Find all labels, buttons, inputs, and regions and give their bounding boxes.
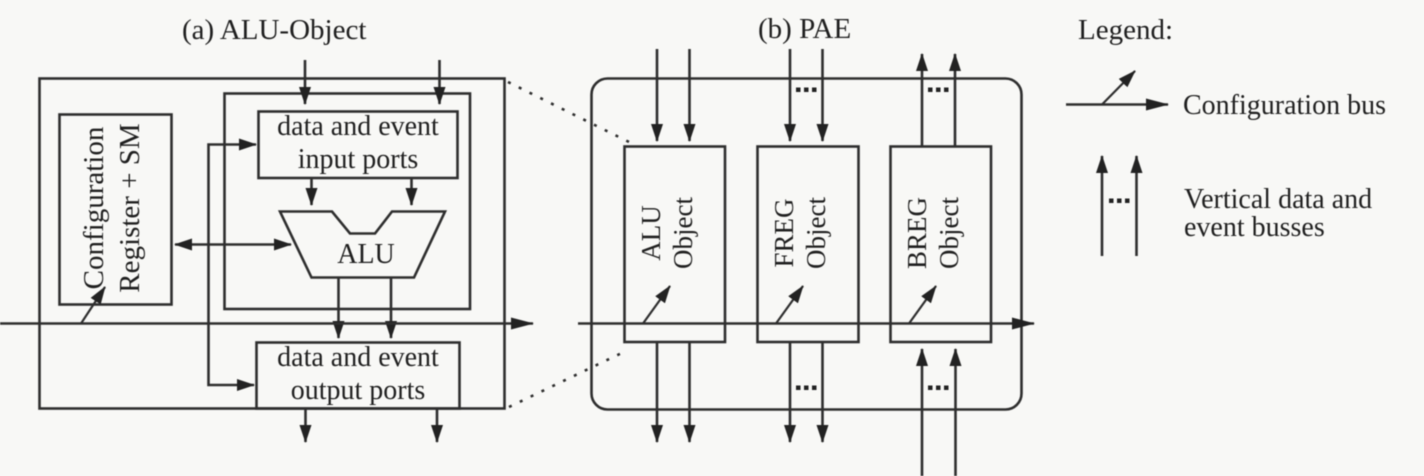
svg-text:ALU: ALU <box>636 205 666 261</box>
wire ALU Object bottom arrow left <box>656 342 659 442</box>
svg-text:event busses: event busses <box>1184 212 1325 243</box>
wire BREG top arrow left <box>921 54 924 147</box>
legend configuration tap arrow <box>1102 71 1135 105</box>
wire feedback path to input and output ports <box>209 145 257 386</box>
svg-text:data and event: data and event <box>277 342 439 373</box>
configuration bus line (a) <box>0 322 533 324</box>
wire FREG bottom arrow right <box>821 342 824 442</box>
svg-text:Object: Object <box>801 197 831 269</box>
box ALU Object <box>625 147 726 343</box>
configuration tap arrow FREG Object <box>776 286 803 324</box>
wire BREG top arrow right <box>954 54 957 147</box>
ALU trapezoid <box>280 212 445 278</box>
wire input ports to ALU right <box>410 178 413 205</box>
outer box ALU-Object <box>40 79 505 409</box>
wire bottom output arrow right <box>436 409 439 443</box>
wire BREG bottom arrow right <box>954 349 957 476</box>
svg-text:ALU: ALU <box>337 239 395 270</box>
legend configuration bus symbol <box>1066 103 1168 105</box>
box FREG Object <box>758 147 859 343</box>
configuration tap arrow ALU Object <box>643 286 670 324</box>
wire FREG bottom arrow left <box>789 342 792 442</box>
wire double arrow config register to ALU <box>175 243 291 246</box>
configuration bus line (b) <box>578 322 1034 324</box>
legend dots <box>1109 199 1130 204</box>
inner sub-box <box>225 94 471 310</box>
wire FREG top arrow left <box>789 49 792 141</box>
svg-text:output ports: output ports <box>291 375 426 406</box>
configuration tap arrow BREG Object <box>909 286 936 324</box>
svg-text:FREG: FREG <box>769 198 799 267</box>
svg-text:Register + SM: Register + SM <box>114 123 146 292</box>
wire ALU to output ports right <box>390 278 393 339</box>
wire bottom output arrow left <box>304 409 307 443</box>
svg-text:Configuration bus: Configuration bus <box>1183 90 1386 121</box>
svg-text:Configuration: Configuration <box>78 126 110 289</box>
dotted zoom line lower <box>509 350 628 407</box>
svg-text:Object: Object <box>934 197 964 269</box>
legend vertical bus arrow right <box>1135 156 1138 256</box>
box Configuration Register + SM <box>60 115 172 305</box>
dotted zoom line upper <box>508 82 629 142</box>
wire input ports to ALU left <box>310 178 313 205</box>
dots BREG top <box>928 88 949 93</box>
wire ALU to output ports left <box>337 278 340 339</box>
outer rounded box PAE <box>592 79 1022 410</box>
wire BREG bottom arrow left <box>921 349 924 476</box>
svg-text:Vertical data and: Vertical data and <box>1184 184 1372 215</box>
wire ALU Object bottom arrow right <box>688 342 691 442</box>
box data and event output ports <box>257 343 460 409</box>
wire ALU Object top arrow right <box>688 49 691 141</box>
legend vertical bus arrow left <box>1101 156 1104 256</box>
wire top input arrow left <box>304 60 307 104</box>
svg-text:BREG: BREG <box>902 197 932 269</box>
dots FREG top <box>796 88 817 93</box>
box data and event input ports <box>259 112 458 179</box>
svg-text:(a) ALU-Object: (a) ALU-Object <box>182 14 366 46</box>
dots BREG bottom <box>928 386 949 391</box>
svg-text:Object: Object <box>668 197 698 269</box>
dots FREG bottom <box>796 386 817 391</box>
svg-text:data and event: data and event <box>277 111 439 142</box>
svg-text:input ports: input ports <box>298 144 419 175</box>
configuration tap arrow into register <box>81 287 105 324</box>
wire ALU Object top arrow left <box>656 49 659 141</box>
box BREG Object <box>891 147 992 343</box>
wire FREG top arrow right <box>821 49 824 141</box>
svg-text:(b) PAE: (b) PAE <box>758 13 851 45</box>
svg-text:Legend:: Legend: <box>1078 14 1173 46</box>
wire top input arrow right <box>438 60 441 104</box>
